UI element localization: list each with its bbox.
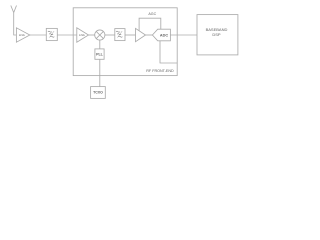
svg-text:LNA: LNA <box>19 33 25 37</box>
svg-text:ADC: ADC <box>160 33 168 37</box>
svg-text:LNA: LNA <box>79 33 85 37</box>
svg-text:TCXO: TCXO <box>93 91 103 95</box>
svg-text:DSP: DSP <box>212 32 221 37</box>
svg-text:RF FRONT-END: RF FRONT-END <box>146 69 174 73</box>
svg-text:PLL: PLL <box>96 52 104 56</box>
svg-text:AGC: AGC <box>148 12 156 16</box>
